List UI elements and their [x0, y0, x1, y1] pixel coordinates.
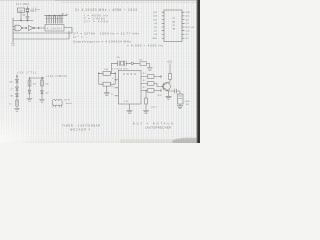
pin stubs left [162, 12, 164, 38]
pin stubs right [182, 12, 185, 38]
LED D1 [16, 79, 19, 82]
svg-text:2¹² = 4096: 2¹² = 4096 [84, 20, 108, 24]
capacitor C2 [118, 61, 120, 66]
resistor R330k [103, 82, 111, 86]
speaker LS1 [178, 94, 184, 104]
wire U1 to node [20, 13, 22, 21]
diode D4 [28, 90, 31, 93]
ground Q1 [166, 96, 172, 99]
svg-text:≈ 4,096 ≈ 4096 Hz: ≈ 4,096 ≈ 4096 Hz [127, 44, 163, 48]
paper top edge band [0, 0, 200, 1]
crystal X1 [26, 7, 29, 14]
wire column 2 [29, 78, 31, 98]
gate G1 (NAND) [15, 25, 21, 31]
gate G2 (inverter) [29, 26, 34, 31]
svg-text:VM: VM [10, 96, 13, 98]
ground LS1 [177, 104, 183, 109]
junction [20, 20, 21, 21]
box U1 (oscillator module, top-left) [18, 8, 25, 13]
capacitor C4 [169, 89, 181, 94]
resistor R1 [16, 100, 19, 106]
label 22p [31, 9, 34, 11]
svg-text:2× 4,19430 MHz ≈ 4096 ∼ 1024: 2× 4,19430 MHz ≈ 4096 ∼ 1024 [75, 8, 137, 12]
wire +12V rail [169, 64, 171, 74]
4060 oscillator circuit (bottom centre) [98, 57, 190, 113]
resistor R2 [28, 80, 31, 86]
resistor R8 [169, 73, 172, 79]
IC U3 pinout (top right) [162, 10, 185, 42]
ground col2 [27, 98, 32, 101]
resistor R7 to ground [145, 91, 147, 99]
wire feedback B [13, 31, 69, 39]
ground [147, 68, 152, 71]
svg-text:VDD: VDD [186, 12, 191, 14]
wire column 1 [16, 75, 18, 105]
svg-text:TIMER - JUSTIERBAR: TIMER - JUSTIERBAR [62, 124, 100, 128]
capacitor C1 [26, 13, 29, 21]
wire U2 out [64, 28, 72, 34]
svg-text:Quarzfrequenz = 4,194304 MHz: Quarzfrequenz = 4,194304 MHz [73, 39, 131, 43]
svg-text:10M: 10M [104, 69, 108, 71]
trimmer C5 [34, 8, 40, 12]
svg-text:Sockel: Sockel [66, 103, 73, 105]
transistor Q1 [163, 83, 171, 91]
handwritten notes block [73, 8, 163, 47]
svg-text:WECKER 4: WECKER 4 [70, 128, 91, 132]
svg-text:2¹⁴ = …: 2¹⁴ = … [73, 35, 88, 39]
svg-text:8Ω: 8Ω [186, 104, 189, 106]
svg-text:LAUTSPRECHER: LAUTSPRECHER [145, 126, 171, 130]
svg-text:RST +5V: RST +5V [186, 27, 195, 29]
node f0 label [11, 43, 15, 45]
bottom-left supply chain [9, 72, 67, 112]
node loop [131, 62, 133, 64]
svg-text:4,194304 MHz: 4,194304 MHz [112, 68, 128, 70]
wire G2 out [35, 27, 45, 29]
ground tap [104, 86, 110, 95]
connector J1 (comb) [45, 14, 68, 16]
resistor R3 [41, 80, 44, 86]
svg-text:Lautst.: Lautst. [151, 106, 158, 109]
label 4,0 [23, 14, 26, 15]
svg-text:4,194304: 4,194304 [47, 27, 63, 30]
diode D5 [41, 91, 44, 94]
paper background [0, 0, 200, 143]
wire column 3 [41, 78, 43, 99]
resistor R9 with ground (mid right) [138, 60, 153, 71]
ground col1 [14, 106, 19, 111]
caption timer [62, 122, 173, 132]
wire main left bus [12, 18, 14, 43]
wire to node [127, 62, 132, 64]
junction [27, 20, 28, 21]
wire drop left [111, 63, 113, 73]
svg-text:+12V (CMOS): +12V (CMOS) [46, 75, 67, 78]
scan edge shadow right [195, 0, 198, 143]
crystal X2 [121, 61, 124, 65]
emitter wire [168, 90, 169, 96]
top edge tick row [62, 2, 196, 4]
wire feedback A [13, 32, 72, 34]
svg-text:+12V: +12V [167, 61, 173, 64]
x mark on wire [62, 13, 69, 15]
svg-text:BUZ: BUZ [158, 95, 163, 97]
svg-text:12.4. 4MHz: 12.4. 4MHz [16, 2, 30, 6]
ground col3 [39, 99, 44, 102]
diode D2 [16, 87, 19, 90]
diode D3 [16, 94, 19, 97]
divider box U2 [45, 25, 64, 32]
wire node row [13, 20, 33, 22]
junction node [26, 27, 27, 28]
svg-text:GND: GND [152, 38, 157, 40]
bottom scan shading [120, 139, 197, 143]
crystal row wire [112, 62, 118, 64]
svg-text:DIP 14: DIP 14 [64, 100, 71, 102]
wire +12V row [30, 77, 44, 78]
pins right U4 [141, 77, 147, 91]
svg-text:CLK: CLK [186, 31, 191, 33]
pins left U4 [115, 80, 119, 96]
IC package sketch (DIP footprint) [53, 99, 73, 107]
capacitor C3 [125, 61, 127, 66]
ground U4 [127, 104, 133, 113]
svg-text:LED: LED [9, 81, 14, 83]
rails [99, 73, 115, 84]
IC U4 [118, 70, 141, 104]
svg-text:+5V (TTL): +5V (TTL) [17, 72, 36, 75]
